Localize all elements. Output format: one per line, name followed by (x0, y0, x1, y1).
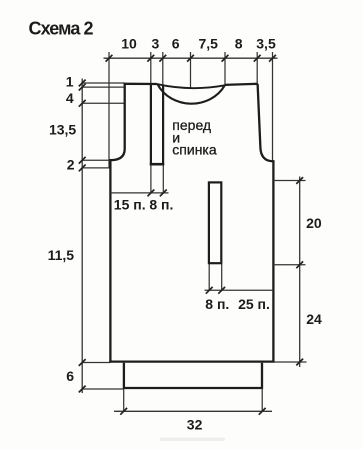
bottom dimension line (32) (114, 410, 272, 412)
garment outline: top edge left of neck (124, 83, 158, 85)
svg-text:Схема 2: Схема 2 (29, 19, 94, 39)
svg-text:4: 4 (66, 90, 74, 106)
bottom dimension extension x262.2 (261, 389, 263, 412)
center slit (209, 182, 221, 263)
top dimension extension line x109 (left edge) (108, 52, 110, 168)
shoulder strap left edge (150, 84, 152, 166)
neckline crescent top arc (158, 84, 225, 88)
left leader y167.9 (82, 167, 110, 169)
top dimension extension line x257.2 (shoulder corner) (256, 52, 258, 84)
svg-text:15 п.: 15 п. (114, 197, 146, 213)
svg-text:2: 2 (67, 157, 75, 173)
svg-text:13,5: 13,5 (49, 122, 76, 138)
garment outline: top edge right of neck (225, 84, 258, 85)
strap dimension ticks (148, 190, 167, 197)
svg-text:25 п.: 25 п. (238, 296, 270, 312)
left dimension ticks (79, 80, 86, 393)
svg-text:8 п.: 8 п. (205, 296, 229, 312)
top dimension extension line x190.5 (neck mid) (190, 52, 192, 89)
top dimension line (104, 57, 278, 59)
bottom dimension ticks (120, 408, 265, 415)
left leader y87.1 (82, 86, 125, 88)
slit dimension line (8 п. / 25 п.) (205, 289, 274, 291)
garment outline: right shoulder edge + armhole curve + right body edge (258, 84, 274, 362)
strap dimension line (15 п. / 8 п.) (110, 192, 168, 194)
svg-text:20: 20 (306, 215, 322, 231)
left leader y103.3 (82, 102, 125, 104)
right dimension bracket y362 (275, 361, 307, 363)
top dimension extension line x272.5 (right edge) (272, 52, 274, 162)
svg-text:1: 1 (66, 73, 74, 89)
slit dimension extension x221.7 (221, 264, 223, 290)
svg-text:11,5: 11,5 (48, 247, 75, 263)
top dimension extension line x150.8 (strap left) (150, 52, 152, 84)
bottom dimension extension x123.7 (123, 389, 125, 412)
svg-text:10: 10 (121, 36, 137, 52)
slit dimension ticks (206, 287, 225, 294)
top dimension extension line x162.8 (strap right) (162, 52, 164, 86)
svg-text:32: 32 (187, 417, 203, 433)
svg-text:3,5: 3,5 (256, 36, 276, 52)
left leader y83 (82, 82, 125, 84)
left leader y160.2 (82, 159, 112, 161)
svg-text:8 п.: 8 п. (149, 197, 173, 213)
garment outline: left shoulder + armhole curve + left body edge (110, 84, 124, 362)
shoulder strap bottom bar (150, 163, 164, 166)
slit dimension extension x209.2 (208, 264, 210, 290)
svg-text:спинка: спинка (172, 142, 217, 158)
left leader y362.5 (82, 362, 110, 364)
right dimension ticks (296, 177, 303, 365)
right dimension bracket y264.8 (273, 264, 305, 266)
top dimension ticks (106, 55, 276, 62)
left leader y389 (82, 388, 124, 390)
svg-text:24: 24 (306, 311, 322, 327)
svg-text:6: 6 (66, 368, 74, 384)
garment outline: body bottom edge (109, 360, 274, 362)
right dimension bracket y180.5 (273, 180, 305, 182)
shoulder strap right edge (162, 85, 164, 165)
strap dimension: extension x163.3 (162, 165, 164, 193)
left dimension line (81, 79, 83, 394)
right dimension line (299, 177, 301, 368)
svg-text:7,5: 7,5 (198, 36, 218, 52)
faint scan smudge bottom (160, 438, 225, 442)
top dimension extension line x225 (neck right) (224, 52, 226, 86)
ribbing band (124, 363, 262, 388)
neckline crescent bottom arc (158, 84, 225, 103)
svg-text:3: 3 (152, 36, 160, 52)
svg-text:6: 6 (172, 36, 180, 52)
svg-text:8: 8 (235, 36, 243, 52)
strap dimension: extension x150.9 (150, 165, 152, 193)
